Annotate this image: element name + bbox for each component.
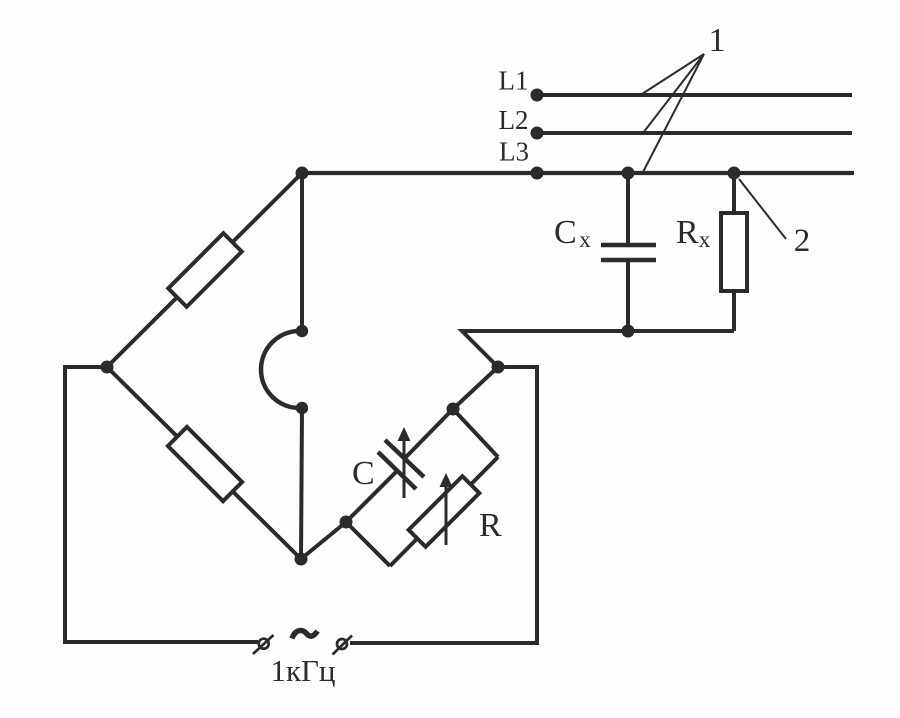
- resistor R (variable): [346, 409, 498, 566]
- wire bridge arm top-left: [107, 173, 302, 367]
- resistor R1 (top-left arm): [168, 233, 242, 307]
- resistor R2 (bottom-left arm): [168, 427, 242, 501]
- wire bridge vertical upper: [300, 173, 304, 331]
- node Cx bottom junction: [622, 325, 635, 338]
- svg-text:L1: L1: [499, 66, 529, 96]
- wire bottom node to CR group: [301, 522, 346, 559]
- wire bridge arm bottom-left: [107, 367, 301, 559]
- generator terminal right: [333, 636, 353, 655]
- wire L3 phase line: [302, 171, 854, 175]
- wire outer loop left: [65, 367, 258, 642]
- svg-text:Rx: Rx: [676, 214, 711, 252]
- node Rx tap on L3: [728, 167, 741, 180]
- wire outer loop right: [350, 367, 537, 643]
- wire leader from 1 to L1: [642, 54, 704, 94]
- node L3 terminal: [531, 167, 544, 180]
- svg-text:C: C: [352, 455, 375, 492]
- node L1 terminal: [531, 89, 544, 102]
- node CR group left: [340, 516, 353, 529]
- svg-text:Cx: Cx: [554, 214, 591, 252]
- wire L1 phase line: [537, 93, 852, 97]
- wire CR group top to right node: [453, 367, 498, 409]
- node bridge left: [101, 361, 114, 374]
- wire leader from 1 to L3: [643, 54, 704, 172]
- generator terminal left: [253, 635, 274, 654]
- svg-text:1кГц: 1кГц: [270, 653, 335, 688]
- node phone bottom: [296, 402, 308, 414]
- node bridge top: [296, 167, 309, 180]
- wire leader from 1 to L2: [643, 54, 704, 133]
- node bridge right: [492, 361, 505, 374]
- svg-text:2: 2: [794, 223, 811, 259]
- svg-text:L3: L3: [499, 137, 529, 167]
- capacitor Cx: [601, 175, 656, 331]
- svg-text:1: 1: [709, 22, 726, 59]
- wire bridge vertical lower: [301, 408, 302, 559]
- resistor Rx: [721, 175, 747, 331]
- node Cx tap on L3: [622, 167, 635, 180]
- generator AC symbol: [292, 631, 318, 639]
- wire leader from node 2: [739, 179, 786, 239]
- node phone top: [296, 325, 308, 337]
- svg-text:L2: L2: [499, 105, 529, 135]
- node bridge bottom: [295, 553, 308, 566]
- node CR group top: [447, 403, 460, 416]
- wire bottom return of Cx and Rx: [462, 331, 734, 367]
- detector phone (null indicator arc): [261, 331, 300, 408]
- wire L2 phase line: [537, 131, 852, 135]
- capacitor C (variable): [346, 409, 453, 522]
- svg-text:R: R: [479, 507, 502, 544]
- node L2 terminal: [531, 127, 544, 140]
